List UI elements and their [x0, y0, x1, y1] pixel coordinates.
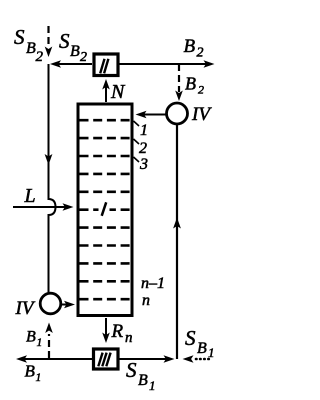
mixer IV top right [167, 103, 188, 124]
svg-text:2: 2 [198, 83, 204, 97]
svg-text:S: S [126, 358, 137, 382]
wire: IV bottom to column right arrow [61, 301, 76, 309]
wire: B2 product out right arrow [119, 60, 215, 68]
svg-text:2: 2 [36, 49, 44, 65]
label I inside column [99, 200, 110, 218]
svg-text:1: 1 [140, 122, 148, 139]
unit III (separator box) [94, 349, 119, 369]
svg-text:B: B [185, 74, 196, 94]
wire: S_B1 from III to junction right arrow [119, 355, 175, 363]
wire: dashed S_B2 inlet with down arrow [45, 26, 53, 57]
label S_B2 left [14, 25, 44, 65]
svg-text:B: B [184, 36, 196, 57]
svg-text:1: 1 [149, 378, 156, 393]
column I (cascade body) [78, 104, 132, 316]
label R_n [111, 321, 133, 346]
stage dashed lines [80, 120, 131, 299]
svg-text:R: R [111, 321, 124, 342]
wire: left downcomer with hop over L [49, 64, 56, 294]
flow arrowhead on left downcomer [45, 154, 53, 165]
wire: S_B1 makeup dotted left arrow [183, 355, 210, 363]
wire: L feed right arrow [13, 203, 74, 211]
svg-text:B: B [138, 372, 148, 389]
stage tick 3 [134, 157, 140, 162]
label B1 lower [25, 362, 42, 385]
label S_B1 upper right [185, 326, 215, 360]
svg-text:n: n [142, 292, 150, 309]
svg-text:3: 3 [139, 156, 148, 173]
svg-text:S: S [59, 29, 70, 53]
label S_B2 right [59, 29, 87, 65]
svg-text:2: 2 [139, 140, 147, 157]
svg-text:2: 2 [197, 46, 204, 61]
svg-text:L: L [24, 185, 36, 207]
svg-text:B: B [25, 362, 36, 381]
svg-text:2: 2 [80, 50, 87, 65]
svg-text:B: B [70, 43, 80, 60]
svg-text:S: S [185, 326, 196, 350]
svg-text:n: n [125, 330, 133, 346]
stage tick 1 [134, 121, 140, 126]
svg-text:B: B [197, 340, 207, 357]
svg-text:1: 1 [208, 345, 215, 360]
unit II (separator box) [94, 54, 118, 76]
svg-text:IV: IV [191, 104, 212, 125]
stage tick 2 [134, 139, 140, 144]
svg-text:IV: IV [15, 298, 36, 319]
svg-text:1: 1 [36, 372, 42, 384]
label B2 top [184, 36, 204, 61]
label S_B1 lower [126, 358, 156, 393]
svg-text:N: N [110, 81, 126, 103]
wire: right riser up to IV [173, 124, 181, 360]
label B1 upper [26, 329, 42, 350]
wire: bottoms R_n down arrow [102, 318, 110, 343]
svg-text:B: B [26, 40, 36, 57]
wire: N overhead up arrow [102, 79, 110, 102]
wire: IV top to column left arrow [136, 111, 168, 119]
svg-text:S: S [14, 25, 25, 49]
wire: dashed B1 reflux up arrow [45, 323, 53, 359]
wire: dashed B2 reflux down arrow [175, 64, 183, 101]
svg-text:1: 1 [37, 337, 43, 349]
label B2 reflux [185, 74, 204, 97]
mixer IV bottom left [40, 293, 61, 314]
wire: B1 product out left arrow [16, 355, 92, 363]
wire: II to S_B2 junction, left arrow [50, 60, 92, 68]
svg-text:n–1: n–1 [141, 275, 165, 292]
svg-text:B: B [26, 329, 36, 346]
